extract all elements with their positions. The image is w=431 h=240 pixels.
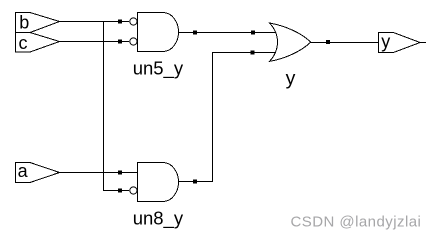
- OR gate y body: [270, 23, 311, 61]
- junction dot on net c at un5_y input: [118, 40, 122, 44]
- un5_y input bubble pin 1: [130, 18, 137, 25]
- junction dot on OR bottom input net: [251, 51, 255, 55]
- un5_y input bubble pin 2: [130, 38, 137, 45]
- junction dot on OR top input net: [251, 31, 255, 35]
- wire b port to un5_y input bubble: [59, 21, 129, 22]
- svg-text:CSDN @landyjzlai: CSDN @landyjzlai: [291, 213, 422, 230]
- wire vertical branch of net b down to un8_y: [103, 21, 104, 191]
- svg-text:c: c: [19, 33, 28, 53]
- svg-text:un5_y: un5_y: [133, 58, 184, 80]
- svg-text:y: y: [286, 68, 296, 90]
- input port b: [16, 13, 60, 33]
- junction dot on net a at un8_y input: [118, 171, 122, 175]
- svg-text:b: b: [19, 13, 29, 33]
- wire c port to un5_y input bubble: [59, 41, 129, 42]
- input port a: [16, 161, 60, 182]
- junction dot on net b at un8_y bubble input: [118, 189, 122, 193]
- junction dot on OR output net: [326, 40, 330, 44]
- junction dot on net b at un5_y input: [118, 20, 122, 24]
- wire vertical riser from un8_y output to OR bottom input: [212, 52, 213, 182]
- output port y: [379, 32, 421, 53]
- wire un5_y output to OR gate top input: [178, 32, 275, 33]
- wire stub after output port y tip: [420, 42, 426, 43]
- wire OR gate bottom input horizontal: [212, 52, 275, 53]
- svg-text:a: a: [18, 161, 29, 181]
- junction dot on un8_y output net: [193, 180, 197, 184]
- AND gate un5_y body: [138, 13, 179, 52]
- wire horizontal into un8_y bubble input: [103, 190, 129, 191]
- svg-text:un8_y: un8_y: [133, 208, 184, 230]
- svg-text:y: y: [381, 32, 390, 52]
- input port c: [16, 33, 60, 53]
- wire a port to un8_y top input: [59, 172, 138, 173]
- un8_y input bubble pin 2: [130, 187, 137, 194]
- AND gate un8_y body: [138, 163, 179, 202]
- junction dot on un5_y output net: [193, 31, 197, 35]
- wire OR gate output to port y: [310, 42, 379, 43]
- wire un8_y output horizontal: [178, 181, 213, 182]
